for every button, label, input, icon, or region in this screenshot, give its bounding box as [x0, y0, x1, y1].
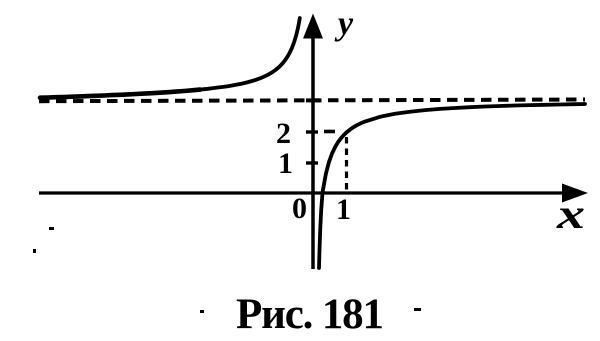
curve left branch of y=3-1/x (steep segment near y-axis) [192, 18, 300, 90]
y-axis [303, 14, 323, 270]
horizontal asymptote y=3 (dashed) [39, 100, 585, 102]
speck noise dots [49, 227, 54, 230]
dashed vertical line x=1 [345, 137, 348, 192]
svg-text:1: 1 [336, 193, 351, 226]
svg-text:Рис. 181: Рис. 181 [236, 291, 384, 338]
svg-text:y: y [334, 6, 354, 43]
dashed marker from axis to point (1,2) [324, 130, 335, 134]
svg-text:0: 0 [292, 192, 307, 225]
tick y=3 [306, 98, 320, 102]
svg-text:1: 1 [278, 147, 293, 180]
x-axis [39, 184, 588, 203]
tick y=2 [306, 130, 318, 133]
curve left branch of y=3-1/x (far segment, merges with dashed asymptote) [40, 90, 200, 98]
tick y=1 [306, 161, 318, 164]
curve right branch of y=3-1/x [319, 104, 585, 268]
svg-text:x: x [556, 192, 585, 238]
svg-text:2: 2 [276, 117, 291, 150]
